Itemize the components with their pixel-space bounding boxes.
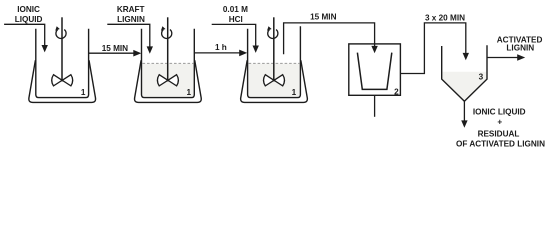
filter box U2 [349,44,401,95]
svg-text:0.01 M: 0.01 M [223,5,248,14]
liquid fill reactor C (unit 1) [248,64,299,97]
stirrer shaft of reactor C (unit 1) [273,17,275,80]
svg-text:2: 2 [394,87,399,96]
stirrer impeller of reactor B (unit 1) [157,75,168,86]
outer dish (bath) of reactor C (unit 1) [241,60,308,102]
svg-text:1: 1 [81,88,86,97]
wire: vessel 1 to vessel 2 [89,52,135,54]
stirrer shaft of reactor A (unit 1) [61,17,63,80]
beaker (inner vessel) of reactor B (unit 1) [142,29,195,98]
stirrer rotation arrow of reactor B (unit 1) [162,30,172,39]
svg-text:KRAFT: KRAFT [117,5,145,14]
beaker (inner vessel) of reactor A (unit 1) [36,29,89,98]
feed pipe: kraft lignin into vessel 2 [107,24,150,47]
stirrer shaft of reactor B (unit 1) [167,17,169,80]
outlet arrow: activated lignin (right) [487,57,518,59]
filter funnel (trapezoid) [357,53,391,90]
svg-text:15 MIN: 15 MIN [102,44,128,53]
outlet arrow: bottoms (down) [463,101,465,121]
svg-text:LIQUID: LIQUID [15,15,43,24]
stirrer rotation arrow of reactor C (unit 1) [268,30,278,39]
wire: filter to separating funnel [400,23,465,74]
liquid fill reactor B (unit 1) [142,64,193,97]
liquid level (dashed) reactor C (unit 1) [249,62,300,64]
svg-text:HCl: HCl [229,15,243,24]
liquid level (dashed) reactor B (unit 1) [143,62,194,64]
stirrer impeller of reactor A (unit 1) [52,75,63,86]
svg-text:3 x 20 MIN: 3 x 20 MIN [425,13,465,22]
svg-text:OF ACTIVATED LIGNIN: OF ACTIVATED LIGNIN [456,139,545,148]
svg-text:1: 1 [187,88,192,97]
svg-text:15 MIN: 15 MIN [310,13,336,22]
separating funnel U3 [442,45,487,101]
svg-text:LIGNIN: LIGNIN [506,44,534,53]
stirrer impeller of reactor C (unit 1) [264,75,275,86]
svg-text:LIGNIN: LIGNIN [117,15,145,24]
svg-text:3: 3 [479,73,484,82]
outer dish (bath) of reactor A (unit 1) [29,60,96,102]
svg-text:1: 1 [292,88,297,97]
filtrate outlet stub below filter [374,95,376,117]
feed pipe: HCl into vessel 3 [212,24,256,46]
wire: vessel 2 to vessel 3 [194,52,241,54]
feed pipe: ionic liquid into vessel 1 [4,24,45,45]
svg-text:1 h: 1 h [215,43,227,52]
wire: dip tube from vessel 3 up and over to filter [284,23,375,54]
svg-text:IONIC LIQUID: IONIC LIQUID [473,108,526,117]
beaker (inner vessel) of reactor C (unit 1) [248,26,301,97]
stirrer rotation arrow of reactor A (unit 1) [56,30,66,39]
outer dish (bath) of reactor B (unit 1) [135,60,202,102]
svg-text:+: + [497,118,502,127]
svg-text:IONIC: IONIC [17,5,40,14]
svg-text:RESIDUAL: RESIDUAL [478,129,520,138]
liquid fill separating funnel [442,72,486,101]
